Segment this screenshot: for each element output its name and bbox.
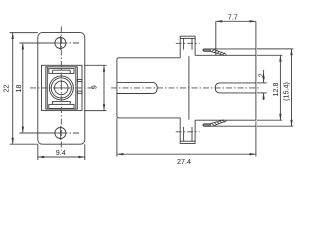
- svg-text:18: 18: [14, 85, 23, 93]
- vertical centerline front view: [60, 27, 62, 151]
- flange upper part: [180, 36, 195, 58]
- left body outline: [117, 58, 180, 118]
- arrow 18 top: [22, 43, 24, 49]
- arrow 22 bottom: [12, 138, 14, 144]
- dim 9.4 extension right: [84, 144, 86, 160]
- side view solids: [117, 36, 256, 143]
- centerlines front view: [30, 27, 94, 151]
- dim 27.4 line: [117, 153, 256, 155]
- flange square (front view): [42, 65, 83, 110]
- flange lower double edge: [180, 140, 195, 142]
- flange upper hole edge left: [183, 38, 185, 49]
- dim 2 extension bottom: [257, 92, 267, 94]
- arrow 22 top: [12, 33, 14, 39]
- dimensions: [10, 21, 294, 160]
- flange lower hole edge left: [183, 127, 185, 141]
- SC body outer rect: [46, 67, 78, 109]
- dim 12.8 extension bottom: [257, 119, 282, 121]
- sleeve bore circle: [55, 81, 69, 95]
- flange upper double edge: [180, 37, 195, 39]
- top latch wedge: [210, 49, 227, 56]
- bottom keyway narrow rect: [53, 101, 71, 104]
- flange hole centerline bottom: [176, 131, 200, 133]
- top hole cross horizontal: [54, 42, 68, 44]
- bottom latch tip bar: [203, 124, 210, 126]
- dim 27.4 extension left: [116, 118, 118, 157]
- right body outline: [195, 55, 256, 120]
- dim 18 line: [22, 43, 24, 133]
- mounting plate (front view): [38, 33, 85, 145]
- arrow 2 bottom: [262, 93, 264, 99]
- svg-text:7.7: 7.7: [228, 12, 238, 21]
- dim 22 extension bottom: [10, 143, 38, 145]
- dim 18 extension bottom: [19, 132, 50, 134]
- dim 9.4 line: [38, 156, 85, 158]
- bottom hole crossline: [50, 132, 80, 134]
- dim 7.7 extension right: [255, 21, 257, 55]
- arrow 7.7 right: [250, 20, 256, 22]
- svg-text:22: 22: [1, 85, 10, 93]
- sleeve center cross vertical: [60, 80, 62, 91]
- flange mid joint line: [188, 56, 190, 119]
- top latch hatch: [212, 50, 226, 55]
- dim 22 extension top: [10, 32, 38, 34]
- arrow 9.4 right: [78, 156, 84, 158]
- sleeve left tube: [117, 83, 157, 94]
- dimension texts: [1, 12, 290, 166]
- right side tab upper: [77, 79, 82, 81]
- bottom hole cross horizontal: [54, 132, 68, 134]
- dim 9 extension bottom: [84, 110, 107, 112]
- SC body inner edge right: [75, 67, 77, 109]
- side view centerlines: [111, 43, 261, 132]
- dimension arrows: [12, 20, 293, 158]
- arrow 18 bottom: [22, 127, 24, 133]
- bottom hole cross vertical: [59, 126, 61, 140]
- top latch tip bar: [203, 49, 210, 51]
- right side tab lower: [77, 91, 82, 93]
- mounting hole top: [55, 38, 66, 49]
- dim 2 extension top: [257, 82, 267, 84]
- arrow 15.4 bottom: [290, 120, 292, 126]
- svg-text:12.8: 12.8: [271, 83, 280, 97]
- flange lower hole edge right: [191, 127, 193, 141]
- bottom keyway wide rect: [49, 104, 74, 108]
- svg-text:(15.4): (15.4): [282, 82, 291, 101]
- dim 15.4 line: [291, 49, 293, 126]
- arrow 12.8 top: [279, 55, 281, 61]
- arrow 9 top: [103, 65, 105, 71]
- arrow 9.4 left: [38, 156, 44, 158]
- arrow 27.4 left: [117, 153, 123, 155]
- dim 9.4 extension left: [37, 144, 39, 160]
- bottom latch wedge: [210, 120, 227, 127]
- svg-text:9: 9: [89, 85, 98, 89]
- bottom latch line: [203, 125, 256, 127]
- bottom latch hatch: [212, 120, 226, 125]
- dim 15.4 extension bottom: [257, 125, 293, 127]
- svg-text:27.4: 27.4: [177, 157, 191, 166]
- arrow 7.7 left: [216, 20, 222, 22]
- arrow 12.8 bottom: [279, 114, 281, 120]
- dim 15.4 extension top: [257, 48, 293, 50]
- top keyway narrow rect: [53, 70, 71, 73]
- right inner tube: [215, 83, 256, 93]
- sleeve middle circle: [51, 78, 71, 98]
- flange lower part: [180, 118, 195, 143]
- svg-text:9.4: 9.4: [56, 148, 66, 157]
- arrow 9 bottom: [103, 104, 105, 110]
- flange upper hole edge right: [191, 38, 193, 49]
- dim 12.8 line: [279, 55, 281, 120]
- flange hole centerline top: [176, 42, 200, 44]
- top hole cross vertical: [59, 36, 61, 50]
- dim 27.4 extension right: [255, 122, 257, 157]
- side main centerline: [111, 87, 261, 89]
- dim 9 line: [103, 65, 105, 110]
- dim 7.7 extension left: [215, 21, 217, 55]
- dim 2 line lower: [263, 93, 265, 100]
- dim 22 line: [12, 33, 14, 145]
- arrow 15.4 top: [290, 49, 292, 55]
- top keyway wide rect: [49, 68, 74, 73]
- top latch line: [203, 48, 256, 50]
- dim 18 extension top: [19, 42, 50, 44]
- dim 7.7 line: [216, 20, 256, 22]
- mounting hole bottom: [55, 128, 66, 139]
- horizontal centerline front view: [30, 87, 94, 89]
- top hole crossline: [50, 42, 80, 44]
- dim 2 line upper: [263, 70, 265, 83]
- dim 12.8 extension top: [257, 54, 282, 56]
- arrow 2 top: [262, 77, 264, 83]
- dim 9 extension top: [84, 64, 107, 66]
- sleeve outer circle: [49, 76, 73, 100]
- sleeve center cross horizontal: [54, 87, 70, 89]
- SC body inner edge left: [46, 67, 48, 109]
- svg-text:2: 2: [256, 73, 265, 77]
- arrow 27.4 right: [250, 153, 256, 155]
